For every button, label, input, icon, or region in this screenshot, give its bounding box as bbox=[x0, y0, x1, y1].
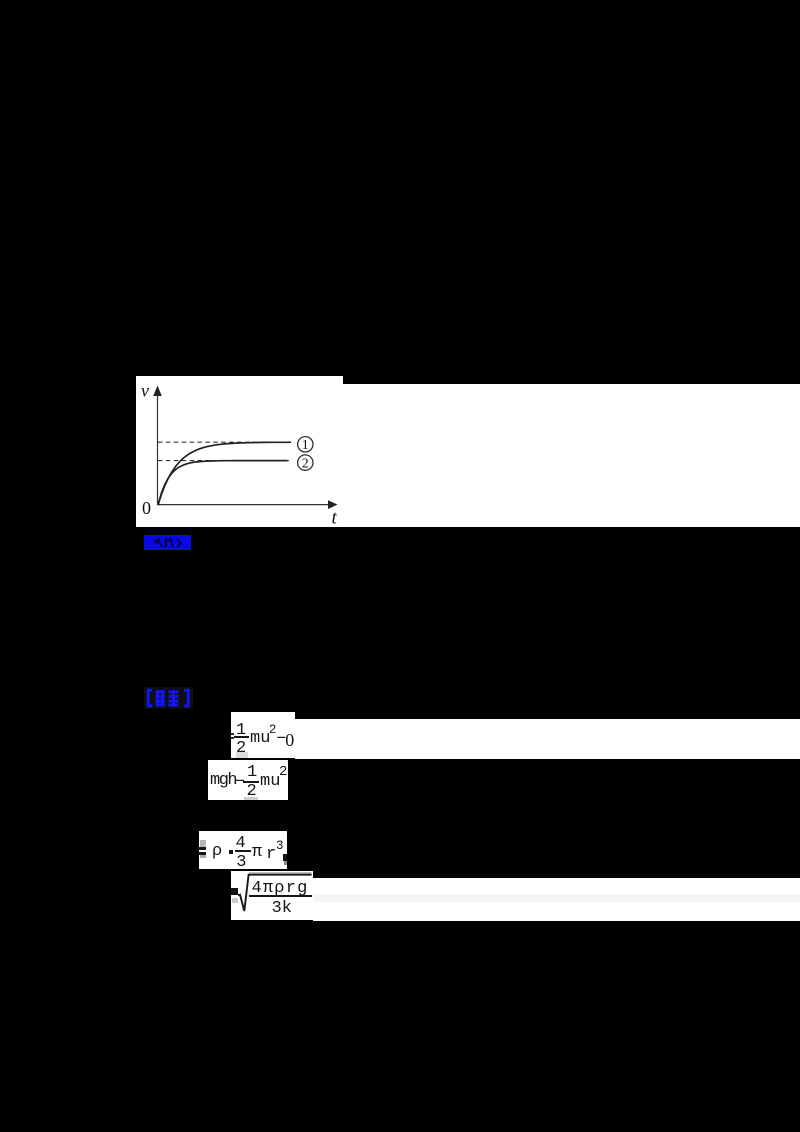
fraction bar bbox=[249, 895, 311, 897]
formula box 2: mgh - 1/2 mu^2 bbox=[208, 760, 288, 800]
mu bbox=[250, 730, 270, 747]
dashed asymptote 1 bbox=[158, 441, 292, 443]
cut equals fragment at left edge bbox=[231, 733, 234, 735]
graph white panel bbox=[136, 376, 343, 527]
fraction 4/3 denominator bbox=[236, 854, 246, 871]
v axis bbox=[157, 393, 159, 505]
r bbox=[266, 846, 276, 863]
blue label (jie-da) bbox=[144, 687, 193, 709]
faint gray strip in right band bbox=[313, 894, 800, 902]
superscript 3 bbox=[276, 840, 284, 853]
formula box 4: = sqrt(4 pi rho r g / 3k) bbox=[231, 871, 313, 920]
rho bbox=[212, 843, 222, 860]
v axis arrowhead bbox=[153, 386, 162, 397]
fraction 1/2 numerator bbox=[236, 722, 246, 739]
light artifact under fraction bbox=[236, 752, 248, 758]
blue highlighted label (fen-xi) bbox=[144, 535, 191, 550]
cut equals fragment bbox=[231, 888, 238, 891]
fraction 1/2 denominator bbox=[247, 783, 257, 800]
4 pi rho r g bbox=[252, 880, 309, 897]
fraction bar bbox=[243, 781, 259, 783]
fraction bar bbox=[235, 850, 251, 852]
t axis arrowhead bbox=[328, 500, 338, 509]
cut equals fragment bars bbox=[199, 847, 206, 850]
cut equals fragment gray top bbox=[200, 840, 206, 847]
formula box 3: = rho . 4/3 pi r^3 , bbox=[199, 831, 287, 869]
svg-text:v: v bbox=[141, 380, 149, 400]
zero bbox=[285, 731, 294, 749]
svg-text:0: 0 bbox=[142, 498, 151, 518]
curve 2 bbox=[158, 461, 288, 505]
dot bbox=[229, 850, 233, 854]
dashed asymptote 2 bbox=[158, 460, 290, 462]
curve 2 marker circled 2 bbox=[298, 455, 313, 470]
minus bbox=[235, 774, 245, 791]
right white band beside graph bbox=[343, 384, 800, 527]
fraction 1/2 numerator bbox=[247, 764, 257, 781]
white band right of formula 1 bbox=[295, 719, 800, 759]
fraction bar bbox=[234, 736, 249, 738]
3k bbox=[272, 900, 292, 917]
t axis bbox=[158, 504, 331, 506]
fraction 1/2 denominator bbox=[236, 740, 246, 757]
superscript 2 bbox=[279, 765, 287, 779]
cut comma fragment bbox=[283, 854, 287, 862]
pi bbox=[252, 844, 262, 861]
v-t graph bbox=[136, 376, 343, 527]
minus bbox=[276, 731, 286, 748]
light artifact under fraction bbox=[244, 797, 258, 801]
mgh bbox=[210, 772, 236, 789]
white band right of formula 4 bbox=[313, 878, 800, 921]
svg-text:t: t bbox=[332, 508, 338, 528]
svg-text:2: 2 bbox=[302, 455, 309, 470]
superscript 2 bbox=[269, 724, 277, 737]
formula box 1: 1/2 mu^2 - 0 bbox=[231, 712, 295, 758]
curve 1 bbox=[158, 442, 291, 505]
svg-text:1: 1 bbox=[302, 437, 309, 452]
fraction 4/3 numerator bbox=[236, 835, 246, 852]
curve 1 marker circled 1 bbox=[298, 437, 313, 452]
mu bbox=[260, 773, 280, 790]
radical sign bbox=[231, 871, 313, 920]
